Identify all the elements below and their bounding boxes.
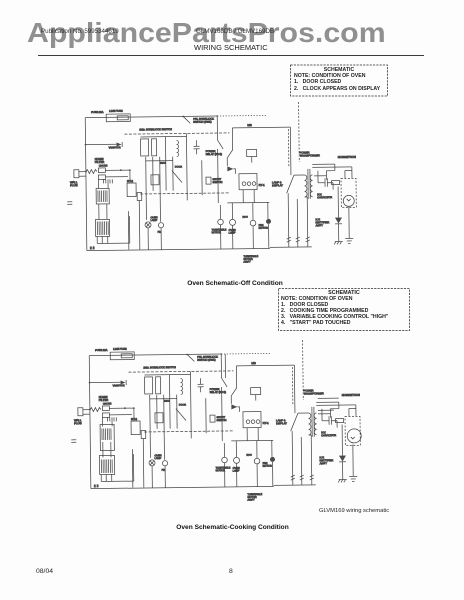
motor FAN circle <box>254 458 260 464</box>
ac source mark <box>71 440 76 443</box>
wire control out 2 <box>105 474 107 481</box>
wire OL2 down <box>236 463 238 486</box>
wire relay out b <box>257 428 259 441</box>
wire filament lead 2 <box>312 166 351 168</box>
wall plug P1 prong 2 <box>83 413 90 415</box>
wire relay closed path <box>224 354 226 378</box>
lamp OL1 circle <box>145 222 151 228</box>
wire bus v5 <box>176 395 178 429</box>
wire TTM down <box>224 463 226 487</box>
transformer LVT internal windings <box>98 190 107 202</box>
wire bus v2 <box>156 395 158 429</box>
wire motor rail <box>227 201 269 204</box>
connector hash marks primary <box>306 237 310 242</box>
wire riser x129 <box>128 216 130 243</box>
boundary dash vertical right <box>298 102 301 162</box>
footer date <box>36 568 53 575</box>
motor FAN circle <box>250 220 256 226</box>
svg-text:PLUG: PLUG <box>74 421 82 425</box>
wire control riser 2 <box>127 211 129 249</box>
fuse F1 element <box>117 116 128 120</box>
ac source mark <box>67 202 72 205</box>
capacitor C4 lead out <box>327 183 333 190</box>
connector hash marks 2 <box>300 475 304 480</box>
relay RY-1 contact b <box>247 182 251 186</box>
wire relay out <box>221 387 224 441</box>
wire magnetron feed 2 <box>349 408 356 416</box>
capacitor C3 plates <box>194 146 200 149</box>
diode D2 bar <box>339 461 346 463</box>
relay RY-1 box <box>239 174 257 190</box>
relay RY2 contact blade <box>222 378 228 387</box>
wire OL1 down <box>147 228 149 250</box>
wire relay out <box>217 149 220 203</box>
note box 1 <box>290 65 388 96</box>
wire control bottom link <box>101 480 133 482</box>
wire fan rail riser 1 <box>291 431 294 485</box>
wire MG right drop <box>293 365 296 413</box>
node filter tap junction <box>85 144 87 146</box>
resistor R1 surge <box>90 408 101 412</box>
wire fan rail riser 2 <box>296 199 299 247</box>
header model numbers <box>196 28 274 35</box>
connector hash marks 1 <box>287 237 291 242</box>
connector hash marks primary <box>310 475 314 480</box>
control board box <box>95 219 109 236</box>
lamp OL1 cross <box>146 223 150 227</box>
wire bus link <box>150 398 177 400</box>
node junction plug rail <box>89 409 91 411</box>
wire MG left drop <box>235 366 237 381</box>
boundary dash line lower <box>140 193 230 194</box>
capacitor C4 plates <box>325 178 327 187</box>
node junction x121 <box>120 169 122 171</box>
resistor R2 bleed <box>336 419 344 423</box>
wire capacitor lead in 2 <box>318 171 325 183</box>
switch SW1 primary interlock blade <box>187 354 194 361</box>
switch SW3 blade <box>172 170 182 182</box>
wire bus v1 <box>145 157 148 220</box>
wire MG rail <box>232 126 290 129</box>
wire LVT feed 2 <box>107 179 109 188</box>
relay RY-1 contact c <box>252 182 256 186</box>
capacitor C2 <box>114 417 116 421</box>
wall plug P1 body <box>74 170 79 178</box>
svg-text:SWITCH (SW1): SWITCH (SW1) <box>197 358 215 362</box>
ground earth 2 <box>345 238 353 243</box>
wire relay out a <box>242 190 244 203</box>
wire bus v2 <box>152 157 154 191</box>
transformer T1 core <box>312 407 314 437</box>
page title <box>194 43 268 52</box>
wire CN down <box>138 200 141 249</box>
wire control out 1 <box>100 475 102 482</box>
svg-text:MAGNETRON: MAGNETRON <box>342 393 360 397</box>
wiring schematic note <box>319 508 389 514</box>
capacitor C2 <box>110 179 112 183</box>
wire TTM stem <box>219 205 221 219</box>
wire cluster top link <box>144 374 169 376</box>
wire capacitor lead in 2 <box>322 409 329 421</box>
wire magnetron feed 2 <box>345 170 352 178</box>
transformer T2 winding box b <box>151 139 156 156</box>
wire diode to ground <box>338 224 340 242</box>
wire riser x129 <box>132 454 134 481</box>
transformer T1 primary winding <box>308 413 311 435</box>
magnetron V1 shield box <box>345 416 360 445</box>
svg-text:CHOKE: CHOKE <box>103 402 112 405</box>
diode D1 <box>231 404 237 409</box>
wire RY2 feed <box>133 408 135 421</box>
svg-text:CAPACITOR: CAPACITOR <box>321 433 336 437</box>
wire choke out top <box>109 407 133 409</box>
wire top rail dotted continuation <box>221 352 271 355</box>
capacitor C3 leads <box>200 378 202 392</box>
wire LVT to control 2 <box>110 442 112 457</box>
wire TTM stem <box>223 443 225 457</box>
choke L2a <box>98 168 105 173</box>
switch SW2 body <box>151 175 159 185</box>
svg-text:2ND. INTERLOCK SWITCH: 2ND. INTERLOCK SWITCH <box>143 365 176 369</box>
choke L2a <box>102 406 109 411</box>
wire bus link <box>146 160 173 162</box>
svg-text:SW-2: SW-2 <box>164 400 171 403</box>
capacitor C3 leads <box>196 140 198 154</box>
relay RY-2 coil box <box>131 421 140 435</box>
node relay top <box>220 353 222 355</box>
wire control bottom link <box>97 242 129 244</box>
wire choke out bottom <box>109 414 131 416</box>
svg-text:VARISTOR: VARISTOR <box>113 384 125 387</box>
choke L2b <box>102 413 109 418</box>
magnetron V1 filament <box>347 199 351 201</box>
wire top rail dotted continuation <box>217 114 267 117</box>
wire LVT to control 1 <box>102 442 104 457</box>
fuse F1 box <box>110 352 134 360</box>
capacitor C4 hv lead in <box>326 164 335 180</box>
note box 2 <box>278 288 410 331</box>
diode D2 hv rectifier <box>335 218 342 224</box>
wire CN down <box>142 438 145 487</box>
wire motor tick c <box>267 202 269 218</box>
wire hv diode lead <box>337 187 339 218</box>
lamp OL1 circle <box>149 460 155 466</box>
wall plug P1 prong 1 <box>83 409 90 411</box>
relay RY-1 contact a <box>246 420 250 424</box>
svg-text:ASS'Y: ASS'Y <box>320 461 328 465</box>
varistor VR1 bar <box>121 142 123 147</box>
wire TTM down <box>220 225 222 249</box>
watermark <box>27 19 386 47</box>
wire magnetron cathode down <box>352 444 354 476</box>
note box 1 border <box>291 65 388 96</box>
svg-text:MOTOR: MOTOR <box>263 465 272 468</box>
connector hash marks 1 <box>291 475 295 480</box>
svg-text:FUSE 15A: FUSE 15A <box>95 348 108 352</box>
wall plug P1 body <box>78 408 83 416</box>
wire diode to ground <box>342 462 344 480</box>
boundary dash vertical <box>287 129 289 167</box>
wire LVT to control 1 <box>98 204 100 219</box>
wire choke out bottom <box>105 176 127 178</box>
svg-text:MOTOR: MOTOR <box>216 469 225 472</box>
ground chassis 1 <box>338 480 347 483</box>
wire magnetron feed <box>351 167 353 178</box>
lamp OL1 cross <box>150 461 154 465</box>
motor M3 circle <box>270 457 275 462</box>
wire OL1 down <box>151 466 153 488</box>
wire LVT feed 1 <box>101 417 103 426</box>
wire coil tail <box>255 395 257 401</box>
transformer T1 secondary winding <box>314 413 317 435</box>
switch SW6 main contact blade <box>290 413 298 431</box>
wire SW5 out <box>230 396 232 404</box>
wire transformer top link <box>294 174 304 176</box>
node relay top <box>216 115 218 117</box>
wire LVT feed 2 <box>111 417 113 426</box>
footer page number <box>229 568 233 575</box>
wire control out 3 <box>107 236 109 243</box>
relay RY2 contact blade <box>218 140 224 149</box>
wire bus v4 <box>168 375 171 429</box>
boundary dash line upper <box>128 371 233 372</box>
caption schematic 2 <box>0 524 464 531</box>
relay RY-1 coil box <box>251 388 261 395</box>
wire M3 down <box>268 224 270 248</box>
wire motor rail <box>231 439 273 442</box>
wall plug P1 prong 1 <box>79 171 86 173</box>
switch SW6 main contact blade <box>286 175 294 193</box>
svg-text:RELAY (RY-2): RELAY (RY-2) <box>210 390 227 394</box>
wire FAN down <box>256 464 258 487</box>
magnetron V1 tube <box>347 429 361 443</box>
connector hash marks 2 <box>296 237 300 242</box>
wire choke out top <box>105 169 129 171</box>
transformer T1 secondary winding <box>310 175 313 197</box>
node filter tap junction <box>89 382 91 384</box>
svg-text:LAMP: LAMP <box>233 470 240 473</box>
svg-text:ASS'Y: ASS'Y <box>247 499 255 502</box>
wire relay drop x218 <box>220 354 222 378</box>
wire fan rail riser 1 <box>287 193 290 247</box>
wire control out 3 <box>111 474 113 481</box>
switch SW4 box <box>206 177 211 184</box>
wire bus v5 <box>172 157 174 191</box>
wire neutral left rail <box>85 118 87 251</box>
wire bottom right rail <box>274 484 316 487</box>
varistor VR1 <box>117 143 122 147</box>
capacitor C4 lead out <box>331 421 337 428</box>
wire secondary hv lead <box>314 175 326 177</box>
wire filament lead 1 <box>312 163 334 165</box>
control board internal pins <box>97 221 108 235</box>
wire neutral left rail <box>89 356 91 489</box>
wire control riser 2 <box>131 449 133 487</box>
boundary dash line upper <box>124 133 229 134</box>
wire control out 1 <box>96 237 98 244</box>
switch SW5 blade <box>231 381 237 396</box>
switch SW3 blade <box>176 408 186 420</box>
capacitor C4 plates <box>329 416 331 425</box>
wire LVT to control 2 <box>106 204 108 219</box>
lamp OL2 circle <box>229 219 235 225</box>
node SW1 pivot <box>186 354 188 356</box>
wire LVT feed 1 <box>97 179 99 188</box>
wire bus v6 <box>189 371 192 438</box>
wire bus v4 <box>164 137 167 191</box>
wire motor tick b <box>256 441 258 459</box>
lamp OL2 circle <box>233 457 239 463</box>
coil L3 <box>177 141 179 157</box>
switch SW5 blade <box>227 143 233 158</box>
wire cluster top link 2 <box>169 373 190 375</box>
diode D1 <box>227 166 233 171</box>
relay RY-1 coil box <box>247 150 257 157</box>
wire MG right drop <box>289 127 292 175</box>
boundary dash vertical <box>291 367 293 405</box>
svg-text:FM: FM <box>162 469 166 472</box>
wire motor tick a <box>235 441 237 457</box>
wire bottom right rail <box>270 246 312 249</box>
svg-text:DISPLAY: DISPLAY <box>276 421 287 425</box>
wire FM down <box>160 228 162 250</box>
connector CN box <box>141 430 146 438</box>
switch SW4 box <box>210 415 215 422</box>
wire transformer top link <box>298 412 308 414</box>
connector CN box <box>137 192 142 200</box>
note box 2 border <box>279 289 410 331</box>
wire bus v7 <box>205 398 207 433</box>
coil L3 <box>181 379 183 395</box>
svg-text:RY-3: RY-3 <box>246 454 252 457</box>
transformer T2 winding box b <box>155 377 160 394</box>
varistor VR1 bar <box>125 380 127 385</box>
wire filament lead 1 <box>316 401 338 403</box>
transformer LVT box <box>96 188 109 204</box>
wire bus v7 <box>201 160 203 195</box>
wire RY2 feed <box>129 170 131 183</box>
wire relay out a <box>246 428 248 441</box>
wire FM down <box>164 466 166 488</box>
wire primary return <box>309 435 312 485</box>
relay RY-1 contact a <box>242 182 246 186</box>
wire bus v6 <box>185 133 188 200</box>
transformer T2 winding box a <box>144 377 152 394</box>
capacitor C1 <box>107 417 109 421</box>
svg-text:LAMP: LAMP <box>154 457 161 460</box>
ground chassis 1 <box>334 242 343 245</box>
wire L1 top rail <box>89 354 221 356</box>
choke L2b <box>98 175 105 180</box>
wire M3 down <box>272 462 274 486</box>
relay RY-2 coil box <box>127 183 136 197</box>
motor FM circle <box>162 461 167 466</box>
svg-text:DOOR: DOOR <box>179 403 186 406</box>
svg-text:MG: MG <box>251 361 256 365</box>
wire FAN down <box>252 226 254 249</box>
fuse F1 element <box>121 354 132 358</box>
node junction x130 <box>129 169 131 171</box>
transformer T2 winding box a <box>140 139 148 156</box>
ground earth 2 <box>349 476 357 481</box>
wire bottom rail <box>91 486 274 488</box>
transformer T1 primary winding <box>304 175 307 197</box>
wire filter tap <box>90 381 121 383</box>
motor TTM circle <box>218 219 224 225</box>
wire extra hv link <box>318 409 334 411</box>
wire bus v1 <box>149 395 152 458</box>
wire extra filament link <box>318 397 339 399</box>
header publication number <box>41 28 119 35</box>
wire magnetron feed <box>355 405 357 416</box>
node SW1 pivot <box>182 116 184 118</box>
wire cluster top link <box>140 136 165 138</box>
wire L1 top rail <box>85 116 217 118</box>
wire primary return <box>305 197 308 247</box>
control board box <box>99 455 114 474</box>
wire motor tick a <box>231 203 233 219</box>
transformer T1 core <box>308 169 310 199</box>
caption schematic 1 <box>0 280 464 287</box>
svg-text:SWITCH: SWITCH <box>217 419 227 422</box>
wire bus v3 <box>159 157 162 222</box>
relay RY-1 contact c <box>256 420 260 424</box>
switch SW2 body <box>155 413 163 423</box>
wire MG left drop <box>231 128 233 143</box>
boundary dash line lower <box>144 431 234 432</box>
wire motor tick c <box>271 440 273 456</box>
svg-text:RY-1: RY-1 <box>263 421 270 425</box>
wire hv diode lead <box>341 425 343 456</box>
magnetron V1 filament <box>351 437 355 439</box>
wall plug P1 prong 2 <box>79 175 86 177</box>
svg-text:TRANSFORMER: TRANSFORMER <box>304 391 324 395</box>
wire control out 2 <box>101 236 103 243</box>
fuse F1 box <box>106 114 130 122</box>
resistor R2 bleed <box>332 181 340 185</box>
wire OL2 down <box>232 225 234 248</box>
motor TTM circle <box>222 457 228 463</box>
wire D1 out <box>233 169 235 174</box>
node junction plug rail <box>85 171 87 173</box>
transformer LVT internal windings <box>102 428 111 440</box>
wire MG rail <box>236 364 294 367</box>
relay RY-1 box <box>243 412 261 428</box>
wire secondary hv lead <box>318 413 330 415</box>
node junction x121 <box>124 407 126 409</box>
magnetron V1 tube <box>343 195 354 206</box>
wire magnetron cathode down <box>348 206 350 238</box>
varistor VR1 <box>121 381 126 385</box>
wire filter tap <box>86 143 117 145</box>
relay RY-1 contact b <box>251 420 255 424</box>
magnetron V1 shield box <box>341 178 356 207</box>
capacitor C4 hv lead in <box>330 402 339 418</box>
node junction x130 <box>133 407 135 409</box>
wire relay out b <box>253 190 255 203</box>
boundary dash vertical right <box>302 340 305 400</box>
resistor R1 surge <box>86 170 97 174</box>
wire fan rail riser 2 <box>300 437 303 485</box>
svg-text:RY-2: RY-2 <box>131 417 138 421</box>
motor M3 circle <box>266 219 271 224</box>
control board internal pins <box>101 459 112 473</box>
motor FM circle <box>158 223 163 228</box>
title rule <box>38 55 424 56</box>
wire D1 out <box>237 407 239 412</box>
svg-text:2 2: 2 2 <box>94 484 99 488</box>
capacitor C1 <box>103 179 105 183</box>
